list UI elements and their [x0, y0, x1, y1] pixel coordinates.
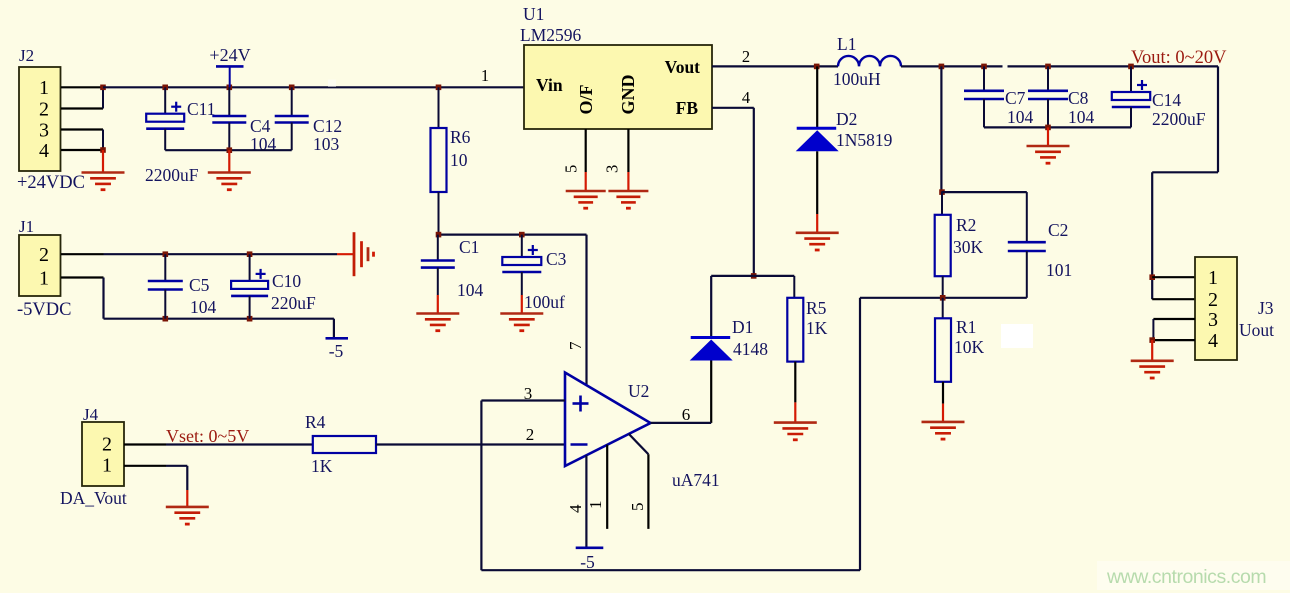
- U1 pin 3 GND lead: [627, 129, 629, 172]
- svg-text:R2: R2: [956, 215, 976, 235]
- earth ground at J1 pin2: [337, 253, 354, 255]
- ground at D2: [816, 214, 818, 233]
- wire L1 to output corner: [901, 65, 1218, 67]
- svg-text:101: 101: [1046, 260, 1072, 280]
- wire -5 rail corner: [333, 319, 335, 339]
- svg-text:C2: C2: [1048, 220, 1068, 240]
- svg-text:Vset: 0~5V: Vset: 0~5V: [166, 426, 249, 446]
- svg-text:-5VDC: -5VDC: [17, 300, 71, 320]
- ground at J3: [1151, 340, 1153, 361]
- wire J2 pin2 to pin1: [102, 87, 104, 108]
- junction C11 top: [162, 85, 168, 91]
- svg-text:1K: 1K: [806, 318, 828, 338]
- svg-text:R4: R4: [305, 412, 326, 432]
- resistor R2: [941, 192, 943, 215]
- ground at C1: [437, 295, 439, 314]
- J1 pin1 stub: [61, 276, 104, 278]
- svg-text:L1: L1: [837, 34, 856, 54]
- power symbol -5 at J1: [326, 337, 349, 340]
- wire op-amp pin 3: [481, 399, 565, 401]
- svg-text:3: 3: [1208, 309, 1218, 331]
- svg-text:2: 2: [742, 47, 750, 66]
- svg-text:10: 10: [450, 150, 468, 170]
- svg-text:30K: 30K: [953, 237, 984, 257]
- svg-text:3: 3: [603, 165, 622, 173]
- junction C14 top: [1128, 64, 1134, 70]
- svg-text:C12: C12: [313, 116, 342, 136]
- junction C10 top: [247, 251, 253, 257]
- junction at J2 pin4: [100, 147, 106, 153]
- junction FB node: [751, 273, 757, 279]
- J4 pin1 stub: [124, 465, 166, 467]
- svg-text:4: 4: [39, 140, 49, 162]
- junction R1 top: [940, 295, 946, 301]
- ground at input caps: [228, 150, 230, 172]
- wire to J3 pin2: [1152, 298, 1195, 300]
- svg-text:D1: D1: [732, 317, 753, 337]
- wire J2 pin3 to pin4: [102, 130, 104, 151]
- svg-text:1N5819: 1N5819: [836, 130, 893, 150]
- svg-text:+24VDC: +24VDC: [17, 173, 85, 193]
- svg-text:www.cntronics.com: www.cntronics.com: [1106, 566, 1266, 588]
- wire -5 rail: [104, 318, 334, 320]
- capacitor C14: [1130, 66, 1132, 92]
- junction at J2 pin1: [100, 85, 106, 91]
- op-amp minus input marker: [571, 443, 588, 446]
- wire R2 node to C2: [941, 191, 1026, 193]
- svg-text:2: 2: [1208, 289, 1218, 311]
- junction D2 top: [814, 64, 820, 70]
- svg-text:10K: 10K: [954, 337, 985, 357]
- ground at U1 O/F pin: [585, 172, 587, 191]
- svg-text:1: 1: [39, 267, 49, 289]
- svg-text:104: 104: [190, 297, 217, 317]
- wire junction to J3 pin1 stub: [1152, 276, 1195, 278]
- svg-text:6: 6: [682, 405, 691, 424]
- wire artifact speck: [328, 80, 336, 87]
- svg-text:103: 103: [313, 134, 340, 154]
- svg-text:J2: J2: [19, 46, 34, 65]
- svg-text:2: 2: [39, 244, 49, 266]
- svg-text:100uf: 100uf: [524, 292, 565, 312]
- resistor R1: [942, 298, 944, 319]
- junction cap rail: [227, 147, 233, 153]
- J1 pin2 stub: [61, 253, 104, 255]
- svg-text:J3: J3: [1258, 298, 1274, 318]
- wire feedback node: [860, 297, 1027, 299]
- svg-text:C10: C10: [272, 271, 301, 291]
- wire artifact speck on output rail: [1003, 64, 1008, 70]
- wire op-amp pin 4 to -5: [585, 455, 587, 548]
- connector J3: [1195, 257, 1237, 360]
- resistor R6: [438, 87, 440, 128]
- svg-text:C1: C1: [459, 237, 479, 257]
- svg-text:LM2596: LM2596: [520, 25, 582, 45]
- svg-text:5: 5: [562, 165, 581, 173]
- svg-text:R5: R5: [806, 298, 827, 318]
- svg-text:4148: 4148: [733, 339, 768, 359]
- J2 pin stubs: [61, 86, 103, 88]
- svg-text:J1: J1: [19, 217, 34, 236]
- resistor R4: [313, 436, 376, 453]
- svg-text:-5: -5: [580, 552, 595, 572]
- wire FB node to D1: [711, 275, 754, 277]
- capacitor C8: [1047, 66, 1049, 90]
- svg-text:2200uF: 2200uF: [145, 165, 199, 185]
- junction J3 pin4: [1149, 337, 1155, 343]
- capacitor C12: [291, 87, 293, 116]
- junction R6 top: [436, 85, 442, 91]
- svg-text:Vin: Vin: [536, 75, 563, 95]
- J3 pin4 stub: [1152, 339, 1195, 341]
- power symbol -5 at op-amp: [576, 546, 604, 549]
- diode D1 4148: [710, 276, 712, 338]
- diode D2 1N5819: [816, 66, 818, 128]
- junction C7 top: [981, 64, 987, 70]
- white patch: [1001, 324, 1033, 348]
- svg-text:2: 2: [102, 433, 112, 455]
- junction C8 top: [1045, 64, 1051, 70]
- wire feedback loop: [859, 298, 861, 570]
- svg-text:D2: D2: [836, 109, 857, 129]
- capacitor C3: [521, 235, 523, 257]
- junction R2 top: [939, 189, 945, 195]
- capacitor C11: [164, 87, 166, 113]
- ground at R5: [794, 402, 796, 422]
- svg-text:1K: 1K: [311, 456, 333, 476]
- J4 pin2 stub: [124, 443, 166, 445]
- svg-text:3: 3: [39, 119, 49, 141]
- svg-text:1: 1: [102, 455, 112, 477]
- junction C5 bottom: [163, 316, 169, 322]
- svg-text:U2: U2: [628, 381, 649, 401]
- capacitor C2: [1026, 192, 1028, 242]
- U1 pin 5 O/F lead: [585, 129, 587, 172]
- wire R6 bottom node to op-amp pin 7: [439, 234, 587, 236]
- svg-text:1: 1: [39, 77, 49, 99]
- svg-text:104: 104: [457, 280, 484, 300]
- junction R2 branch: [939, 64, 945, 70]
- svg-text:+24V: +24V: [209, 45, 250, 65]
- op-amp pin 5 lead: [629, 434, 649, 454]
- junction C3 top: [519, 232, 525, 238]
- svg-text:J4: J4: [83, 405, 99, 424]
- op-amp U2 triangle: [565, 373, 651, 467]
- connector J2: [19, 67, 61, 171]
- junction output cap rail: [1045, 125, 1051, 131]
- capacitor C5: [164, 254, 166, 281]
- resistor R5: [793, 276, 795, 298]
- wire J4 pin1 to ground: [166, 465, 187, 467]
- wire R4 to op-amp pin 2: [376, 443, 565, 445]
- svg-text:R6: R6: [450, 127, 471, 147]
- inductor L1: [838, 56, 901, 67]
- svg-text:C14: C14: [1152, 90, 1181, 110]
- junction J3 pin1: [1149, 274, 1155, 280]
- wire +24V rail to U1 Vin: [103, 86, 524, 88]
- wire U1 FB to divider: [712, 107, 754, 109]
- wire J4 pin2 to R4: [166, 443, 313, 445]
- svg-text:104: 104: [1007, 107, 1034, 127]
- svg-text:1: 1: [1208, 267, 1218, 289]
- svg-text:C7: C7: [1005, 88, 1026, 108]
- svg-text:100uH: 100uH: [833, 69, 881, 89]
- junction C12 top: [289, 85, 295, 91]
- svg-text:220uF: 220uF: [271, 293, 316, 313]
- svg-text:Vout: 0~20V: Vout: 0~20V: [1131, 48, 1227, 68]
- svg-text:C8: C8: [1068, 88, 1089, 108]
- wire FB node to R5: [754, 275, 795, 277]
- svg-text:U1: U1: [523, 4, 544, 24]
- svg-text:C5: C5: [189, 275, 210, 295]
- svg-text:104: 104: [1068, 107, 1095, 127]
- svg-text:C4: C4: [250, 116, 271, 136]
- wire J1 pin2 to earth: [104, 253, 338, 255]
- svg-text:uA741: uA741: [672, 470, 720, 490]
- ground at output caps: [1047, 127, 1049, 146]
- op-amp pin 1 lead: [606, 445, 608, 529]
- wire input cap bottom rail: [165, 149, 292, 151]
- svg-text:O/F: O/F: [576, 84, 596, 114]
- wire J1 pin1 down: [102, 278, 104, 319]
- capacitor C7: [983, 66, 985, 90]
- svg-text:DA_Vout: DA_Vout: [60, 488, 127, 508]
- capacitor C4: [228, 87, 230, 116]
- svg-text:2: 2: [526, 425, 535, 444]
- wire U1 Vout to L1: [712, 65, 838, 67]
- ground at U1 GND pin: [627, 172, 629, 191]
- svg-text:-5: -5: [329, 341, 344, 361]
- wire op-amp output to D1: [651, 422, 712, 424]
- J3 pin3 stub: [1153, 318, 1195, 320]
- connector J1: [19, 235, 61, 296]
- ground at R1: [942, 404, 944, 422]
- ground at J2: [102, 150, 104, 173]
- junction C4 top: [227, 85, 233, 91]
- svg-text:FB: FB: [676, 98, 699, 118]
- wire output cap bottom rail: [984, 126, 1131, 128]
- ground at C3: [521, 295, 523, 314]
- junction C10 bottom: [247, 316, 253, 322]
- capacitor C10: [249, 254, 251, 281]
- svg-text:2: 2: [39, 98, 49, 120]
- junction C5 top: [163, 251, 169, 257]
- svg-text:4: 4: [566, 504, 585, 513]
- wire J3 pin3 to pin4: [1152, 319, 1154, 340]
- svg-text:Vout: Vout: [665, 57, 701, 77]
- svg-text:1: 1: [481, 66, 489, 85]
- svg-text:4: 4: [742, 88, 750, 107]
- svg-text:R1: R1: [956, 317, 976, 337]
- watermark band: [1097, 561, 1290, 590]
- svg-text:C3: C3: [546, 249, 567, 269]
- svg-text:2200uF: 2200uF: [1152, 109, 1206, 129]
- capacitor C1: [437, 235, 439, 261]
- svg-text:7: 7: [566, 341, 585, 350]
- svg-text:1: 1: [586, 501, 605, 510]
- junction C1 top: [436, 232, 442, 238]
- svg-text:GND: GND: [618, 75, 638, 115]
- svg-text:C11: C11: [187, 99, 216, 119]
- connector J4: [82, 422, 124, 486]
- IC U1 LM2596 body: [524, 45, 712, 129]
- svg-text:5: 5: [628, 503, 647, 512]
- op-amp plus input marker: [573, 402, 589, 405]
- ground at J4: [186, 490, 188, 507]
- wire output to J3 pin1: [1217, 66, 1219, 172]
- svg-text:4: 4: [1208, 330, 1218, 352]
- wire output rail to R2: [940, 66, 942, 192]
- svg-text:Uout: Uout: [1239, 320, 1274, 340]
